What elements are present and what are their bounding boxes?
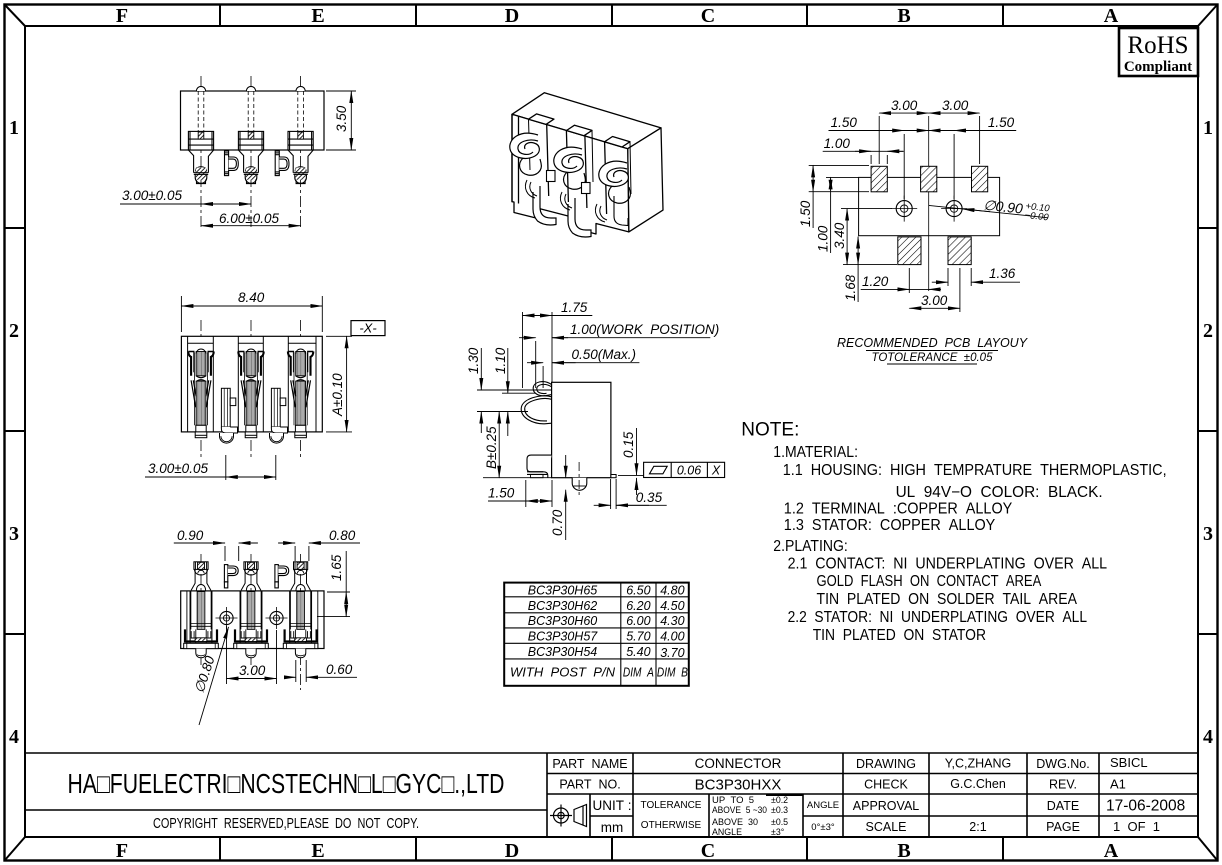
view1 contact 3	[288, 131, 313, 183]
svg-text:F: F	[116, 5, 128, 27]
tolerance cell	[641, 800, 702, 831]
side dim 1.30	[480, 348, 482, 433]
view2 contact 1	[188, 349, 213, 438]
svg-text:WITH POST P/N: WITH POST P/N	[510, 666, 616, 680]
svg-text:TIN PLATED ON SOLDER TAIL: TIN PLATED ON SOLDER TAIL AREA	[817, 591, 1078, 608]
svg-text:5.40: 5.40	[626, 645, 650, 659]
title block outline	[25, 753, 1198, 837]
svg-text:±3°: ±3°	[771, 827, 784, 837]
svg-text:BC3P30H60: BC3P30H60	[528, 614, 598, 628]
svg-text:A±0.10: A±0.10	[330, 373, 345, 417]
side dim 0.35	[594, 479, 667, 509]
svg-text:2: 2	[9, 320, 19, 342]
svg-text:D: D	[505, 840, 519, 862]
side dim B+-0.25	[498, 412, 500, 478]
title block labels	[552, 756, 1089, 834]
svg-text:DATE: DATE	[1047, 799, 1079, 813]
svg-text:3: 3	[9, 523, 19, 545]
side view body	[552, 382, 611, 477]
svg-text:2.1 CONTACT: NI UNDERPLATIN: 2.1 CONTACT: NI UNDERPLATING OVER ALL	[788, 556, 1108, 573]
side dim 1.50	[488, 480, 552, 507]
pcb top pads	[871, 166, 988, 192]
svg-text:1.68: 1.68	[843, 274, 858, 301]
view2 dim A+-0.10	[326, 336, 352, 432]
svg-text:OTHERWISE: OTHERWISE	[641, 820, 702, 831]
angle cell	[807, 800, 839, 833]
view3 dim 0.60	[286, 660, 357, 682]
view1 centerlines	[201, 76, 301, 227]
iso top slots	[529, 114, 555, 125]
svg-text:17-06-2008: 17-06-2008	[1106, 798, 1185, 815]
side dim 0.15	[618, 428, 645, 495]
iso feet	[533, 186, 628, 237]
svg-text:ANGLE: ANGLE	[807, 800, 839, 811]
svg-text:1.MATERIAL:: 1.MATERIAL:	[773, 444, 858, 461]
svg-text:DWG.No.: DWG.No.	[1036, 757, 1089, 771]
pcb dim 1.00 vertical	[826, 177, 859, 253]
view1 contact 2	[238, 131, 263, 183]
view2 inner walls	[188, 336, 316, 432]
svg-text:6.20: 6.20	[626, 599, 650, 613]
svg-text:Compliant: Compliant	[1124, 59, 1192, 75]
svg-text:1 OF 1: 1 OF 1	[1113, 819, 1160, 834]
svg-text:BC3P30H54: BC3P30H54	[528, 645, 598, 659]
svg-text:6.00: 6.00	[626, 614, 650, 628]
side dim 1.75	[523, 312, 593, 388]
svg-text:6.50: 6.50	[626, 583, 650, 597]
svg-text:4: 4	[1203, 726, 1213, 748]
svg-text:1.50: 1.50	[988, 115, 1015, 130]
iso right face	[628, 128, 663, 232]
svg-text:COPYRIGHT RESERVED,PLEASE DO: COPYRIGHT RESERVED,PLEASE DO NOT COPY.	[153, 816, 419, 832]
svg-text:TOTOLERANCE ±0.05: TOTOLERANCE ±0.05	[872, 352, 994, 364]
svg-text:GOLD FLASH ON CONTACT AREA: GOLD FLASH ON CONTACT AREA	[817, 573, 1042, 590]
svg-text:PART NO.: PART NO.	[559, 778, 620, 792]
svg-text:ABOVE 5 ~30: ABOVE 5 ~30	[712, 805, 767, 815]
svg-text:6.00±0.05: 6.00±0.05	[219, 211, 279, 226]
svg-text:NOTE:: NOTE:	[741, 420, 799, 441]
svg-text:BC3P30H62: BC3P30H62	[528, 599, 598, 613]
svg-text:3.50: 3.50	[334, 105, 349, 132]
view3 contact 3	[283, 562, 318, 658]
svg-text:2.PLATING:: 2.PLATING:	[773, 538, 848, 555]
svg-text:±0.3: ±0.3	[771, 805, 788, 815]
view3 clip 2	[275, 565, 289, 588]
svg-text:1.10: 1.10	[493, 347, 508, 374]
svg-text:1.20: 1.20	[862, 274, 889, 289]
iso front face	[512, 114, 629, 234]
svg-text:0°±3°: 0°±3°	[811, 822, 835, 833]
unit cell	[593, 798, 632, 835]
svg-text:3: 3	[1203, 523, 1213, 545]
svg-text:±0.2: ±0.2	[771, 795, 788, 805]
svg-text:1.00: 1.00	[816, 225, 831, 252]
svg-text:DRAWING: DRAWING	[856, 757, 916, 771]
svg-text:2.2 STATOR: NI UNDERPLATING: 2.2 STATOR: NI UNDERPLATING OVER ALL	[788, 609, 1088, 626]
svg-text:0.80: 0.80	[329, 528, 356, 543]
zone row dividers left	[4, 228, 25, 634]
title block values right	[1106, 755, 1185, 834]
svg-text:C: C	[701, 5, 715, 27]
svg-text:A1: A1	[1110, 777, 1126, 792]
view3 body	[181, 591, 324, 649]
svg-text:A: A	[1104, 840, 1119, 862]
pcb dim 1.50 vertical	[809, 165, 869, 228]
svg-text:C: C	[701, 840, 715, 862]
view2 pin 1	[220, 388, 238, 443]
pcb leader dia 0.90	[929, 205, 1048, 217]
svg-text:1.65: 1.65	[329, 554, 344, 581]
view3 contact 1	[184, 562, 219, 658]
svg-text:APPROVAL: APPROVAL	[853, 799, 920, 813]
svg-text:1.36: 1.36	[989, 266, 1016, 281]
projection symbol	[550, 805, 587, 827]
side dim 1.00 work position	[519, 338, 710, 388]
zone letters top	[116, 5, 1119, 27]
svg-text:4.80: 4.80	[660, 583, 684, 597]
side view spring hook	[521, 382, 551, 424]
pcb hole 2	[941, 196, 967, 222]
svg-text:CHECK: CHECK	[864, 778, 908, 792]
view1 hidden lines	[198, 91, 303, 132]
view3 clip 1	[224, 565, 238, 588]
view1 body	[181, 91, 325, 150]
view1 contact 1	[188, 131, 213, 183]
pcb hole 1	[891, 196, 917, 222]
svg-text:SBICL: SBICL	[1110, 755, 1148, 770]
svg-text:1.3 STATOR: COPPER ALLOY: 1.3 STATOR: COPPER ALLOY	[784, 517, 996, 534]
svg-text:0.35: 0.35	[636, 490, 663, 505]
svg-text:F: F	[116, 840, 128, 862]
svg-text:BC3P30H57: BC3P30H57	[528, 629, 599, 643]
svg-text:-X-: -X-	[359, 321, 377, 336]
svg-text:4.50: 4.50	[660, 599, 684, 613]
view2 contact 2	[238, 349, 263, 438]
view3 hole 2	[266, 607, 288, 629]
svg-text:5.70: 5.70	[626, 629, 650, 643]
svg-text:1.50: 1.50	[488, 486, 515, 501]
side view foot	[527, 455, 552, 478]
svg-text:PART NAME: PART NAME	[552, 757, 627, 771]
svg-text:RoHS: RoHS	[1127, 32, 1188, 59]
svg-text:UNIT :: UNIT :	[593, 798, 632, 813]
zone letters bottom	[116, 840, 1119, 862]
svg-text:0.70: 0.70	[550, 509, 565, 536]
svg-text:BC3P30HXX: BC3P30HXX	[695, 777, 782, 794]
pcb dim 1.00	[823, 151, 904, 164]
view1 clip 1	[225, 151, 239, 176]
side feature lines	[477, 390, 552, 478]
view3 dim 3.00	[227, 626, 277, 684]
svg-text:E: E	[311, 5, 324, 27]
side dim 1.10	[507, 348, 509, 436]
zone numbers right	[1203, 117, 1213, 748]
zone column dividers bottom	[220, 837, 1003, 861]
svg-text:4.00: 4.00	[660, 629, 684, 643]
svg-text:1.00: 1.00	[824, 136, 851, 151]
view3 dim 0.90	[174, 543, 258, 561]
view3 leader dia 0.80	[199, 627, 229, 725]
svg-text:D: D	[505, 5, 519, 27]
svg-text:REV.: REV.	[1049, 778, 1077, 792]
svg-text:1.1 HOUSING: HIGH TEMPRATUR: 1.1 HOUSING: HIGH TEMPRATURE THERMOPLAST…	[783, 462, 1167, 479]
svg-text:CONNECTOR: CONNECTOR	[695, 756, 782, 771]
svg-text:2: 2	[1203, 320, 1213, 342]
svg-text:2:1: 2:1	[969, 820, 986, 834]
view2 centerlines	[201, 320, 301, 458]
svg-text:1: 1	[9, 117, 19, 139]
pcb dim 1.36	[932, 268, 1020, 286]
svg-text:B: B	[897, 5, 910, 27]
svg-text:0.60: 0.60	[326, 662, 353, 677]
iso left wall	[512, 114, 519, 203]
view3 hole 1	[216, 607, 238, 629]
side dim 0.50 max	[527, 363, 639, 388]
svg-text:3.00: 3.00	[921, 293, 948, 308]
svg-text:4.30: 4.30	[660, 614, 684, 628]
svg-text:ANGLE: ANGLE	[712, 827, 742, 837]
svg-text:SCALE: SCALE	[866, 820, 907, 834]
svg-text:DIM A: DIM A	[623, 666, 654, 680]
svg-text:TIN PLATED ON STATOR: TIN PLATED ON STATOR	[813, 627, 986, 644]
svg-text:0.90: 0.90	[177, 528, 204, 543]
iso top face	[512, 93, 661, 149]
svg-text:PAGE: PAGE	[1046, 820, 1080, 834]
svg-text:1.50: 1.50	[798, 200, 813, 227]
svg-text:1.30: 1.30	[466, 347, 481, 374]
svg-text:RECOMMENDED PCB LAYOUY: RECOMMENDED PCB LAYOUY	[837, 336, 1029, 350]
iso small tabs	[547, 171, 591, 194]
svg-text:3.00: 3.00	[942, 98, 969, 113]
view3 dim 0.80	[278, 543, 360, 561]
svg-text:3.00: 3.00	[891, 98, 918, 113]
pcb dim 1.50 pair	[829, 131, 1017, 200]
flatness feature control frame	[644, 462, 725, 477]
svg-text:X: X	[711, 463, 721, 477]
svg-text:3.00: 3.00	[239, 663, 266, 678]
svg-text:4: 4	[9, 726, 19, 748]
iso tower edges	[547, 125, 607, 214]
svg-text:3.40: 3.40	[832, 222, 847, 249]
side view solder bump	[572, 462, 587, 497]
svg-text:0.06: 0.06	[677, 463, 701, 477]
view2 dim 8.40	[181, 296, 322, 332]
view3 inner walls	[187, 591, 318, 649]
svg-text:UP TO 5: UP TO 5	[712, 795, 754, 805]
svg-text:8.40: 8.40	[238, 290, 265, 305]
view1 dim 6.00+-0.05	[201, 225, 301, 227]
svg-text:1.00(WORK POSITION): 1.00(WORK POSITION)	[570, 322, 719, 337]
svg-text:0.15: 0.15	[621, 431, 636, 458]
view1 post bumps	[196, 86, 305, 91]
svg-text:1.50: 1.50	[831, 115, 858, 130]
svg-text:B: B	[897, 840, 910, 862]
svg-text:G.C.Chen: G.C.Chen	[950, 777, 1006, 791]
svg-text:1.75: 1.75	[561, 300, 588, 315]
svg-text:Y,C,ZHANG: Y,C,ZHANG	[945, 757, 1011, 771]
svg-text:E: E	[311, 840, 324, 862]
svg-text:BC3P30H65: BC3P30H65	[528, 583, 598, 597]
zone row dividers right	[1198, 228, 1218, 634]
pcb dim 3.00 bottom	[909, 268, 960, 312]
svg-text:3.00±0.05: 3.00±0.05	[122, 188, 182, 203]
view3 dim 1.65	[317, 551, 350, 617]
iso contact hooks	[510, 133, 631, 203]
svg-text:mm: mm	[601, 820, 624, 835]
view2 datum -X-	[351, 321, 385, 336]
svg-text:3.70: 3.70	[660, 646, 684, 660]
svg-text:±0.5: ±0.5	[771, 817, 788, 827]
view1 clip 2	[275, 151, 289, 176]
view1 dim 3.50	[326, 91, 356, 150]
view3 centerlines	[201, 554, 301, 690]
zone numbers left	[9, 117, 19, 748]
pcb dim 3.00 top pair	[879, 113, 979, 164]
pcb bottom pads	[898, 237, 971, 265]
RoHS compliant box	[1119, 28, 1198, 76]
svg-text:1.2 TERMINAL :COPPER ALLOY: 1.2 TERMINAL :COPPER ALLOY	[784, 501, 1013, 518]
zone column dividers top	[220, 4, 1003, 26]
svg-text:UL 94V−O COLOR: BLACK.: UL 94V−O COLOR: BLACK.	[896, 484, 1103, 501]
svg-text:B±0.25: B±0.25	[484, 426, 499, 469]
pcb dim 1.20	[861, 268, 941, 293]
svg-text:3.00±0.05: 3.00±0.05	[148, 461, 208, 476]
view2 pin 2	[270, 388, 288, 443]
side dim 0.70	[565, 455, 567, 540]
svg-text:DIM B: DIM B	[657, 666, 688, 680]
iso spring sheets	[525, 180, 607, 222]
view2 body	[181, 336, 322, 432]
pcb dim 1.68 vertical	[857, 237, 859, 302]
pcb outline	[859, 177, 1000, 235]
svg-text:0.50(Max.): 0.50(Max.)	[572, 347, 637, 362]
svg-text:TOLERANCE: TOLERANCE	[641, 800, 702, 811]
iso tower inner lines	[529, 119, 632, 194]
view2 dim 3.00+-0.05	[145, 455, 276, 480]
svg-text:1: 1	[1203, 117, 1213, 139]
view3 contact 2	[234, 562, 269, 658]
svg-text:A: A	[1104, 5, 1119, 27]
pcb dim 3.40 vertical	[841, 209, 897, 265]
side view right tab	[611, 475, 616, 478]
view2 contact 3	[288, 349, 313, 438]
pcb mid centerline	[928, 116, 930, 291]
tolerance values	[712, 795, 788, 837]
svg-text:HA□FUELECTRI□NCSTECHN□L□GYC□.,: HA□FUELECTRI□NCSTECHN□L□GYC□.,LTD	[68, 768, 505, 799]
view1 dim 3.00+-0.05	[120, 203, 251, 205]
svg-text:ABOVE 30: ABOVE 30	[712, 817, 758, 827]
